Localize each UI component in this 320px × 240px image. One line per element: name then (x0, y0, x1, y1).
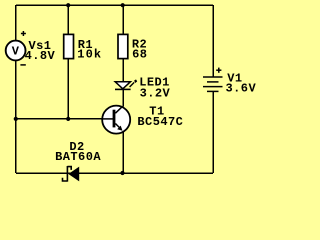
svg-text:68: 68 (132, 48, 147, 62)
svg-text:4.8V: 4.8V (25, 49, 56, 63)
svg-text:3.2V: 3.2V (140, 87, 171, 101)
svg-text:V: V (12, 45, 20, 59)
svg-text:10k: 10k (77, 47, 102, 61)
svg-text:BAT60A: BAT60A (55, 150, 101, 164)
svg-text:BC547C: BC547C (137, 115, 183, 129)
svg-text:3.6V: 3.6V (226, 82, 257, 96)
